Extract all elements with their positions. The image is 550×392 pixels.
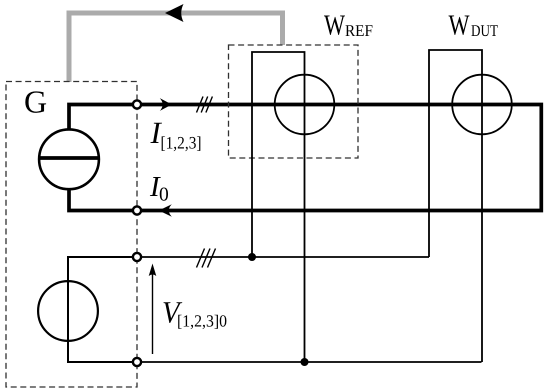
svg-text:DUT: DUT [471, 21, 498, 40]
svg-text:W: W [324, 10, 345, 42]
junction dot WREF left leg [248, 253, 256, 261]
current source bar [39, 156, 100, 160]
wire: source top to node I out [69, 105, 137, 131]
multi-conductor marks /// on sense wire [197, 249, 216, 268]
terminal node I out [133, 100, 141, 108]
terminal node V upper [133, 253, 141, 261]
terminal node V lower [133, 358, 141, 366]
arrow I[1,2,3] (right) on top wire [160, 98, 172, 111]
wire: voltage sense upper (thin) [137, 256, 429, 258]
wire: node I0 to source bottom [69, 189, 137, 211]
auxiliary voltage source circle [38, 281, 98, 341]
winding WDUT (rect path) [429, 50, 482, 362]
arrowhead on feedback wire [165, 4, 184, 22]
wire feedback (gray) from G top to WREF winding [69, 13, 283, 82]
svg-text:REF: REF [345, 21, 373, 40]
winding WREF (rect path, left leg to V-wire dot, right leg to bottom wire dot) [252, 52, 305, 362]
terminal node I0 [133, 206, 141, 214]
core circle WDUT [452, 75, 512, 135]
svg-text:0: 0 [159, 185, 169, 206]
wire through auxiliary source [67, 279, 69, 343]
svg-text:G: G [24, 84, 47, 120]
core circle WREF [275, 75, 335, 135]
svg-text:W: W [449, 10, 470, 42]
junction dot WREF right leg [301, 358, 309, 366]
wire: auxiliary source loop [68, 257, 137, 362]
arrow I0 (left) on bottom wire [159, 204, 172, 216]
generator enclosure box G (dashed) [6, 82, 137, 388]
wire: voltage sense lower (thin) [137, 361, 482, 363]
svg-text:[1,2,3]: [1,2,3] [161, 133, 202, 153]
WREF enclosure box (dashed) [229, 45, 359, 158]
svg-text:[1,2,3]0: [1,2,3]0 [177, 312, 227, 331]
arrow V (up) [152, 274, 154, 354]
wire: main current loop (thick) node out, right, down, back to node in [137, 105, 541, 211]
multi-conductor marks /// on top wire [197, 97, 213, 113]
current source G circle [39, 129, 99, 189]
